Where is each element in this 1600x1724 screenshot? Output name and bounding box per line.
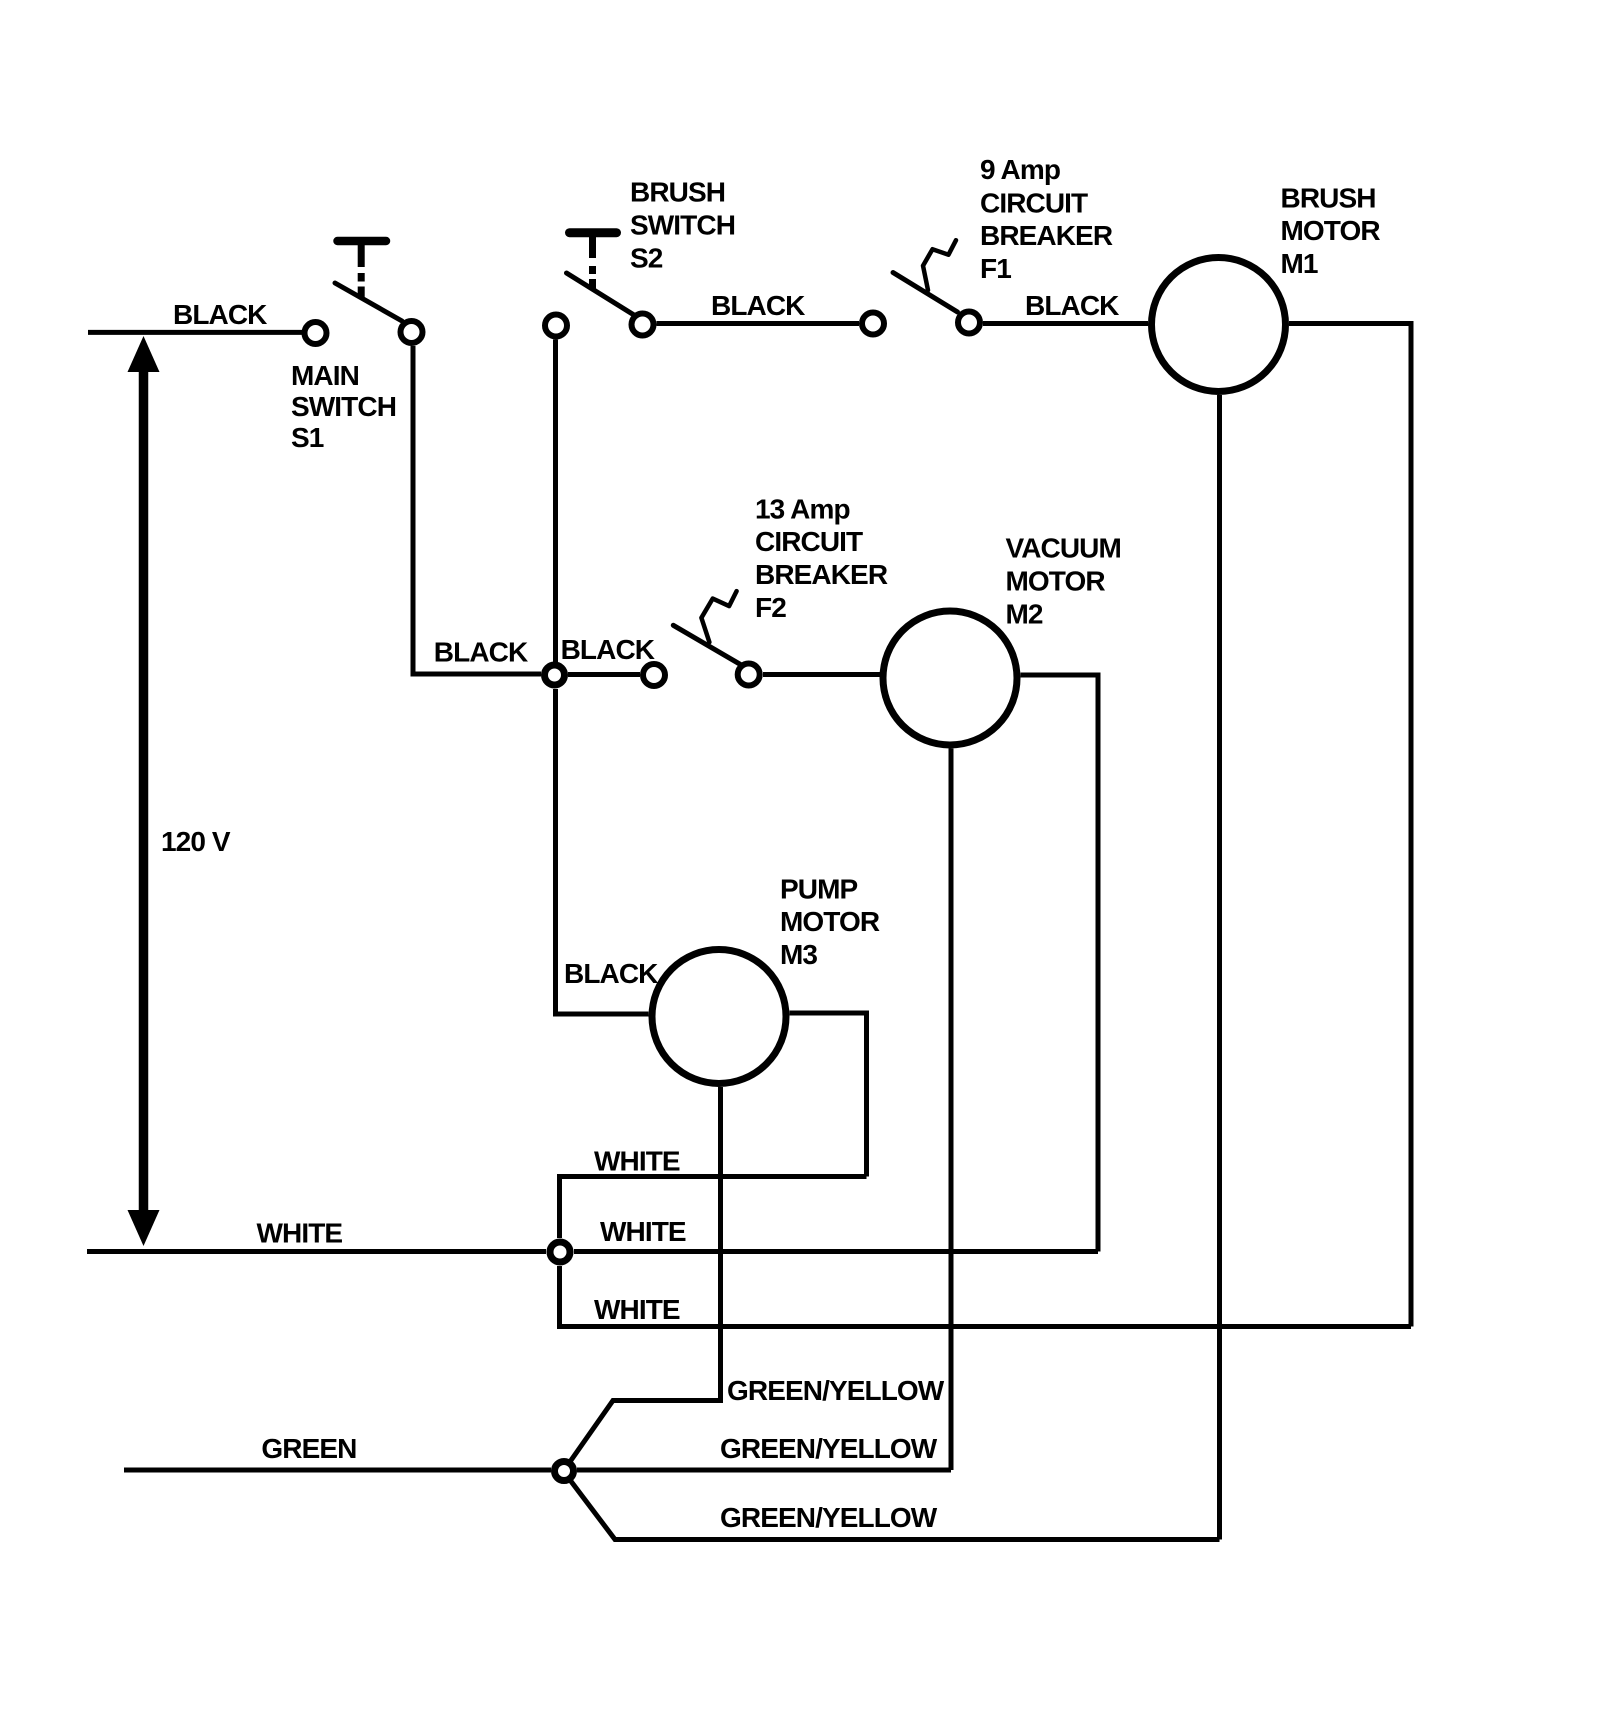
breaker F2 left terminal [643,664,665,686]
switch S2 blade [567,273,635,315]
wire junction drop to M3 feed [556,689,649,1014]
wire junction to F2 [568,672,640,677]
switch S1 blade [335,283,402,321]
wire WHITE to M1 return [560,1266,1412,1327]
label 9 Amp CIRCUIT BREAKER F1 [980,154,1113,284]
svg-text:GREEN/YELLOW: GREEN/YELLOW [727,1375,945,1406]
svg-text:BREAKER: BREAKER [980,220,1113,251]
svg-text:F2: F2 [755,592,786,623]
label BRUSH MOTOR M1 [1281,183,1381,280]
breaker F1 zigzag [923,240,956,290]
wire M2 bottom to green/yellow [949,749,954,1471]
breaker F1 right terminal [958,312,980,334]
svg-text:S1: S1 [291,422,324,453]
wire GREEN/YELLOW to M2 [577,1468,951,1473]
svg-text:M1: M1 [1281,248,1318,279]
breaker F1 left terminal [862,313,884,335]
motor M1 [1152,258,1286,392]
svg-text:BLACK: BLACK [711,290,805,321]
wire WHITE to M2 return [574,1249,1098,1254]
wire S2 drop to junction [553,340,558,663]
wire F2 to M2 [763,672,880,677]
svg-text:9 Amp: 9 Amp [980,154,1060,185]
node junction (green wires) [555,1462,574,1481]
svg-text:WHITE: WHITE [594,1146,680,1177]
svg-text:GREEN/YELLOW: GREEN/YELLOW [720,1433,938,1464]
svg-text:BRUSH: BRUSH [1281,183,1376,214]
svg-text:WHITE: WHITE [600,1216,686,1247]
wire M1 bottom to green/yellow [1217,395,1222,1540]
breaker F2 right terminal [738,664,760,686]
120 V source double arrow [128,336,160,1246]
svg-text:VACUUM: VACUUM [1006,533,1121,564]
svg-text:SWITCH: SWITCH [291,391,396,422]
wire top BLACK feed [88,330,302,335]
svg-text:GREEN: GREEN [261,1433,356,1464]
label MAIN SWITCH S1 [291,360,396,453]
wire GREEN main [124,1468,551,1473]
svg-text:BRUSH: BRUSH [630,177,725,208]
wire M1 right to WHITE return [1289,324,1411,1327]
breaker F2 lever [673,625,741,664]
breaker F1 lever [893,273,958,313]
motor M3 [652,950,786,1084]
label 13 Amp CIRCUIT BREAKER F2 [755,494,888,624]
svg-text:M3: M3 [780,939,817,970]
svg-text:BLACK: BLACK [173,299,267,330]
label PUMP MOTOR M3 [780,874,880,971]
svg-text:BREAKER: BREAKER [755,559,888,590]
svg-text:WHITE: WHITE [257,1218,343,1249]
label BRUSH SWITCH S2 [630,177,735,274]
wire S1 drop to middle row [413,346,541,674]
wire M2 right to WHITE return [1021,675,1099,1252]
node junction (white wires) [550,1242,570,1262]
wire GREEN/YELLOW to M3 [567,1401,721,1467]
node junction (black wires) [545,665,565,685]
wire WHITE return from M3 [560,1177,867,1239]
svg-text:CIRCUIT: CIRCUIT [755,526,863,557]
svg-text:MOTOR: MOTOR [1281,215,1381,246]
svg-text:MOTOR: MOTOR [1006,566,1106,597]
svg-text:M2: M2 [1006,599,1043,630]
wire F1 to M1 [983,321,1148,326]
svg-text:MOTOR: MOTOR [780,906,880,937]
switch S1 left terminal [305,322,327,344]
wire GREEN/YELLOW to M1 [567,1476,1220,1540]
breaker F2 zigzag [701,591,736,642]
switch S2 actuator T-bar [570,233,617,289]
svg-text:13 Amp: 13 Amp [755,494,850,525]
switch S2 left terminal [545,315,567,337]
svg-text:MAIN: MAIN [291,360,359,391]
wire S2 to F1 [657,321,860,326]
svg-text:BLACK: BLACK [1025,290,1119,321]
switch S2 right terminal [632,314,654,336]
wire M3 right to WHITE return [790,1013,867,1177]
motor M2 [883,611,1017,745]
svg-text:BLACK: BLACK [434,637,528,668]
svg-text:CIRCUIT: CIRCUIT [980,188,1088,219]
svg-text:SWITCH: SWITCH [630,210,735,241]
svg-text:BLACK: BLACK [561,634,655,665]
label VACUUM MOTOR M2 [1006,533,1121,630]
svg-text:120 V: 120 V [161,826,231,857]
svg-text:BLACK: BLACK [564,958,658,989]
wire M3 bottom to green/yellow [615,1087,721,1401]
wire WHITE main from source [87,1249,546,1254]
svg-text:F1: F1 [980,253,1011,284]
svg-text:WHITE: WHITE [594,1294,680,1325]
svg-text:S2: S2 [630,243,663,274]
switch S1 actuator T-bar [338,241,387,297]
switch S1 right terminal [401,321,423,343]
svg-text:PUMP: PUMP [780,874,858,905]
svg-text:GREEN/YELLOW: GREEN/YELLOW [720,1502,938,1533]
